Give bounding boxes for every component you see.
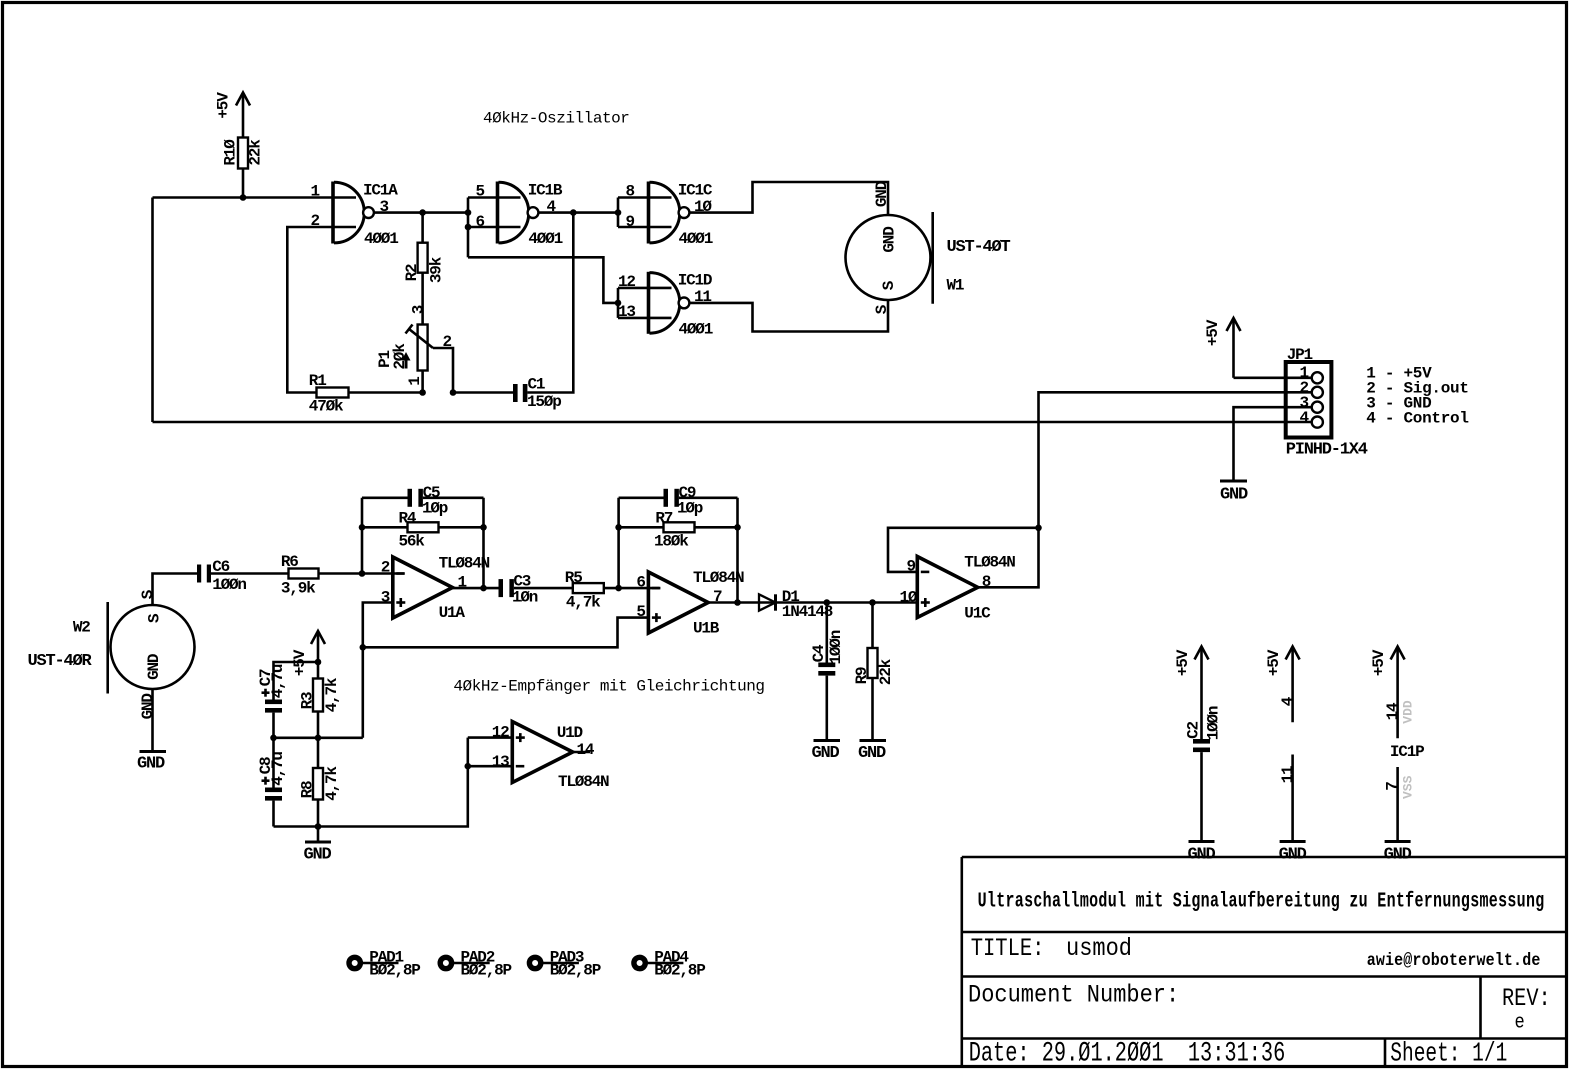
svg-text:2: 2	[381, 559, 390, 577]
svg-text:6: 6	[636, 573, 645, 591]
wire feedback right riser U1B	[736, 498, 739, 603]
svg-text:GND: GND	[1187, 846, 1215, 865]
+5V supply symbol (bias)	[311, 631, 325, 679]
svg-text:13: 13	[618, 303, 635, 321]
svg-text:1Øp: 1Øp	[422, 499, 448, 517]
svg-text:R2: R2	[403, 264, 421, 281]
wire C7 bottom	[272, 713, 275, 738]
junction at R10 / pin1 net	[240, 194, 247, 201]
wire pin12	[468, 736, 513, 739]
U1B plus glyph	[652, 613, 661, 622]
wire R7 left	[619, 526, 664, 529]
wire C6 to R6	[211, 572, 289, 575]
svg-text:1ØØn: 1ØØn	[1205, 706, 1223, 740]
+5V supply symbol (U1 power)	[1286, 647, 1300, 723]
wire C5 right	[423, 496, 484, 499]
wire left rail down to Control net	[151, 198, 154, 423]
ground symbol C2	[1189, 840, 1215, 843]
svg-text:R8: R8	[298, 781, 316, 798]
resistor R10	[238, 138, 248, 169]
U1A plus glyph	[396, 598, 405, 607]
junction IC1C bracket	[615, 209, 622, 216]
svg-text:4,7u: 4,7u	[269, 664, 287, 698]
svg-text:4,7k: 4,7k	[566, 594, 601, 612]
capacitor C2 (polarized)	[1193, 739, 1210, 752]
svg-text:4,7u: 4,7u	[269, 752, 287, 786]
wire D1 to U1C pin10	[776, 601, 918, 604]
svg-text:1N4148: 1N4148	[782, 603, 833, 621]
svg-text:1ØØn: 1ØØn	[827, 630, 845, 664]
svg-text:TLØ84N: TLØ84N	[964, 554, 1015, 572]
wire C4 top	[825, 603, 828, 663]
header JP1 box	[1286, 362, 1332, 438]
svg-text:GND: GND	[303, 846, 331, 865]
ground symbol JP1	[1220, 480, 1247, 483]
svg-text:4ØØ1: 4ØØ1	[528, 230, 562, 248]
svg-text:56k: 56k	[399, 533, 426, 551]
wire R4 right	[439, 526, 484, 529]
svg-text:9: 9	[626, 213, 635, 231]
wire C2 bottom	[1200, 752, 1203, 841]
svg-text:2: 2	[311, 212, 320, 230]
svg-text:C2: C2	[1185, 722, 1203, 739]
nor gate IC1B input bracket	[467, 198, 470, 258]
ground symbol bias	[305, 841, 331, 844]
wire feedback right riser	[482, 498, 485, 588]
wire bias rail	[274, 736, 363, 739]
svg-text:4ØØ1: 4ØØ1	[679, 230, 713, 248]
svg-text:7: 7	[1384, 782, 1402, 791]
svg-text:4ØkHz-Empfänger mit Gleichrich: 4ØkHz-Empfänger mit Gleichrichtung	[453, 678, 764, 696]
junction R8 gnd	[315, 823, 322, 830]
wire R1 to P1 node	[349, 391, 423, 394]
capacitor C5	[408, 489, 423, 507]
svg-text:TITLE:: TITLE:	[971, 934, 1045, 962]
svg-text:5: 5	[476, 183, 485, 201]
resistor R7	[664, 522, 695, 532]
svg-text:TLØ84N: TLØ84N	[693, 569, 744, 587]
junction R7 tap	[615, 585, 622, 592]
wire U1A pin3 to bias	[363, 603, 393, 738]
resistor R1	[317, 388, 349, 398]
diode D1	[759, 594, 776, 610]
junction U1D pin13	[465, 763, 472, 770]
+5V supply symbol (IC1P power)	[1391, 647, 1405, 739]
svg-text:GND: GND	[145, 654, 163, 680]
JP1 pad 4	[1312, 417, 1323, 428]
junction U1C feedback	[1035, 525, 1042, 532]
svg-text:awie@roboterwelt.de: awie@roboterwelt.de	[1367, 951, 1541, 970]
wire IC1A pin2 feedback	[287, 227, 356, 393]
ground symbol IC1P	[1385, 840, 1411, 843]
transducer W2 body	[111, 605, 195, 689]
svg-text:4,7k: 4,7k	[323, 677, 341, 712]
wire W2 S to C6	[153, 574, 198, 605]
U1D plus glyph	[516, 733, 525, 742]
svg-text:+5V: +5V	[1265, 649, 1283, 676]
junction R7 left	[615, 524, 622, 531]
svg-text:U1C: U1C	[964, 604, 991, 622]
svg-text:U1D: U1D	[557, 724, 583, 742]
svg-text:Date: 29.Ø1.2ØØ1 13:31:36: Date: 29.Ø1.2ØØ1 13:31:36	[969, 1039, 1286, 1070]
wire bias to U1B pin5	[363, 618, 649, 648]
svg-text:GND: GND	[1384, 846, 1412, 865]
P1 adjust arrow glyph	[402, 352, 411, 369]
wire R3 bottom	[317, 712, 320, 738]
wire feedback riser U1B	[617, 498, 620, 588]
junction R3/R8	[315, 735, 322, 742]
wire Control net (long horizontal to JP1 pin4)	[153, 421, 1312, 424]
svg-text:BØ2,8P: BØ2,8P	[654, 962, 705, 980]
pad PAD1	[349, 957, 399, 968]
wire C9 left	[619, 496, 664, 499]
svg-text:Document Number:: Document Number:	[968, 981, 1179, 1010]
wire IC1D output to W1 S	[690, 300, 889, 332]
svg-text:BØ2,8P: BØ2,8P	[369, 962, 420, 980]
svg-text:R1Ø: R1Ø	[222, 139, 240, 166]
svg-text:GND: GND	[139, 694, 157, 720]
junction C7 tap	[315, 659, 322, 666]
wire W2 GND down	[151, 689, 154, 751]
pad PAD3	[529, 957, 579, 968]
svg-text:R3: R3	[298, 692, 316, 709]
junction output/feedback	[480, 585, 487, 592]
svg-text:GND: GND	[873, 181, 891, 207]
wire C8 bottom	[272, 801, 275, 827]
junction IC1D bracket	[615, 300, 622, 307]
svg-text:1: 1	[311, 183, 320, 201]
wire R2 top	[421, 213, 424, 243]
svg-text:IC1P: IC1P	[1390, 743, 1424, 761]
wire R7 right	[695, 526, 738, 529]
wire pin13	[618, 317, 672, 320]
svg-text:BØ2,8P: BØ2,8P	[550, 962, 601, 980]
wire pin5	[468, 196, 521, 199]
wire feedback riser	[361, 498, 364, 574]
title block outline	[962, 857, 1565, 1066]
capacitor C6	[197, 565, 211, 583]
wire R9 top	[871, 603, 874, 649]
svg-text:1Ø: 1Ø	[900, 588, 918, 606]
wire U1 pin11 to gnd	[1291, 755, 1294, 842]
wire R2 to P1	[421, 273, 424, 325]
svg-text:R6: R6	[281, 553, 298, 571]
U1A minus glyph	[396, 572, 405, 575]
+5V supply symbol (R10)	[236, 93, 250, 138]
svg-text:C1: C1	[528, 376, 545, 394]
wire JP1 pin3 GND stub	[1234, 407, 1312, 481]
nor gate IC1D	[649, 272, 690, 334]
nor gate IC1A	[333, 182, 374, 244]
op-amp U1C	[917, 557, 977, 618]
junction R2 tap	[419, 209, 426, 216]
wire P1 wiper to bottom net	[433, 348, 453, 393]
+5V supply symbol (JP1)	[1227, 318, 1241, 378]
W2 side bar	[106, 602, 109, 694]
junction bracket main	[465, 209, 472, 216]
svg-text:3,9k: 3,9k	[281, 579, 316, 597]
svg-text:UST-4ØT: UST-4ØT	[947, 238, 1011, 257]
junction P1 pin1	[419, 389, 426, 396]
JP1 pad 3	[1312, 402, 1323, 413]
wire C3 to R5	[514, 587, 573, 590]
pad PAD2	[440, 957, 490, 968]
JP1 pad 2	[1312, 387, 1323, 398]
svg-text:4ØkHz-Oszillator: 4ØkHz-Oszillator	[483, 110, 629, 128]
wire U1A output	[453, 587, 499, 590]
+5V supply symbol (C2 rail)	[1195, 647, 1209, 740]
junction bias tap	[360, 644, 367, 651]
wire gnd stub	[317, 827, 320, 843]
JP1 pad 1	[1312, 372, 1323, 383]
nor gate IC1B	[498, 182, 539, 244]
wire pin8	[618, 196, 672, 199]
ground symbol C4	[814, 739, 841, 742]
wire IC1B output	[539, 211, 619, 214]
svg-text:4 - Control: 4 - Control	[1366, 409, 1468, 427]
U1C plus glyph	[921, 598, 930, 607]
svg-text:UST-4ØR: UST-4ØR	[28, 652, 93, 671]
svg-text:+5V: +5V	[1370, 649, 1388, 676]
svg-text:Ultraschallmodul mit Signalauf: Ultraschallmodul mit Signalaufbereitung …	[978, 890, 1545, 913]
svg-text:IC1B: IC1B	[528, 181, 563, 199]
svg-text:11: 11	[1279, 766, 1297, 783]
svg-text:39k: 39k	[428, 256, 446, 283]
C8 plus sign	[262, 777, 270, 785]
resistor R6	[289, 569, 319, 579]
junction bracket pin6	[465, 224, 472, 231]
svg-text:GND: GND	[811, 744, 839, 763]
svg-text:IC1A: IC1A	[363, 181, 398, 199]
op-amp U1B	[648, 572, 708, 633]
svg-text:VSS: VSS	[1401, 775, 1416, 799]
wire C7 top	[274, 662, 319, 700]
wire IC1A output	[374, 211, 468, 214]
ground symbol W2	[140, 750, 167, 753]
wire U1B output	[708, 601, 759, 604]
svg-text:12: 12	[618, 273, 635, 291]
resistor R3	[313, 679, 323, 712]
junction R4 left	[359, 524, 366, 531]
svg-text:1: 1	[406, 377, 424, 386]
svg-text:BØ2,8P: BØ2,8P	[461, 962, 512, 980]
capacitor C8 (polarized)	[265, 788, 282, 801]
junction P1 wiper tap	[450, 389, 457, 396]
wire P1 bottom	[421, 371, 424, 393]
wire node to C1	[453, 391, 513, 394]
svg-text:8: 8	[626, 183, 635, 201]
wire pin9	[618, 226, 672, 229]
wire C4 bottom	[825, 676, 828, 741]
svg-text:14: 14	[577, 741, 595, 759]
wire R9 bottom	[871, 678, 874, 741]
svg-text:IC1D: IC1D	[678, 272, 712, 290]
wire IC1P pin7 to gnd	[1396, 767, 1399, 842]
W1 side bar	[931, 212, 934, 304]
svg-text:47Øk: 47Øk	[309, 398, 344, 416]
svg-text:Sheet: 1/1: Sheet: 1/1	[1390, 1039, 1507, 1069]
op-amp U1D	[512, 722, 572, 783]
capacitor C7 (polarized)	[265, 700, 282, 713]
resistor R8	[313, 768, 323, 800]
svg-text:15Øp: 15Øp	[527, 393, 561, 411]
svg-text:IC1C: IC1C	[678, 181, 713, 199]
svg-text:13: 13	[492, 753, 509, 771]
capacitor C9	[664, 489, 679, 507]
svg-text:R4: R4	[399, 509, 417, 527]
svg-text:1Øn: 1Øn	[512, 589, 538, 607]
svg-text:REV:: REV:	[1502, 984, 1551, 1013]
svg-text:12: 12	[492, 723, 509, 741]
svg-text:4ØØ1: 4ØØ1	[679, 320, 713, 338]
junction R7 right	[734, 524, 741, 531]
svg-text:6: 6	[476, 213, 485, 231]
resistor R9	[868, 648, 878, 678]
svg-text:e: e	[1515, 1010, 1525, 1034]
potentiometer P1	[418, 325, 428, 371]
svg-text:R1: R1	[309, 372, 326, 390]
svg-text:3: 3	[410, 305, 428, 314]
svg-text:U1A: U1A	[439, 604, 466, 622]
wire C8 top	[272, 738, 275, 788]
ground symbol R9	[860, 739, 887, 742]
capacitor C3	[499, 579, 514, 597]
C7 plus sign	[262, 689, 270, 697]
wire JP1 pin1	[1234, 376, 1312, 379]
capacitor C1	[513, 384, 527, 402]
wire IC1A pin1 from left rail	[153, 196, 357, 199]
svg-text:U1B: U1B	[693, 620, 720, 638]
svg-text:+5V: +5V	[1174, 649, 1192, 676]
svg-text:GND: GND	[137, 755, 165, 774]
transducer W1 body	[846, 215, 931, 300]
wire R10 to net	[242, 169, 245, 198]
junction U1B feedback	[734, 599, 741, 606]
svg-text:2Øk: 2Øk	[391, 343, 409, 370]
svg-text:JP1: JP1	[1287, 346, 1313, 364]
svg-text:R7: R7	[655, 509, 672, 527]
P1 wiper arrow	[406, 325, 434, 349]
junction R9 tap	[869, 599, 876, 606]
wire R8 top	[317, 738, 320, 768]
svg-text:1Øp: 1Øp	[677, 499, 703, 517]
wire IC1C output to W1 GND	[690, 182, 889, 215]
svg-text:4ØØ1: 4ØØ1	[364, 230, 398, 248]
svg-text:1ØØn: 1ØØn	[212, 576, 246, 594]
svg-text:R9: R9	[853, 667, 871, 684]
wire R8 bottom	[317, 800, 320, 827]
svg-text:4,7k: 4,7k	[323, 766, 341, 801]
junction C7/C8	[270, 735, 277, 742]
wire pin12	[618, 287, 672, 290]
svg-text:usmod: usmod	[1066, 936, 1132, 963]
wire JP1 pin2 Sig.out from U1C	[1039, 392, 1312, 528]
resistor R2	[418, 243, 428, 273]
svg-text:+5V: +5V	[215, 92, 233, 119]
svg-text:22k: 22k	[247, 139, 265, 166]
U1D input bracket	[466, 738, 469, 767]
ground symbol U1 power	[1280, 840, 1306, 843]
U1B minus glyph	[652, 587, 661, 590]
svg-text:22k: 22k	[877, 658, 895, 685]
wire R5 to U1B pin6	[604, 587, 660, 590]
resistor R4	[408, 522, 439, 532]
junction C1 riser	[570, 209, 577, 216]
nor gate IC1C input bracket	[617, 198, 620, 228]
nor gate IC1C	[649, 182, 690, 244]
nor gate IC1D input bracket	[617, 288, 620, 318]
U1C minus glyph	[921, 571, 930, 574]
svg-text:5: 5	[636, 603, 645, 621]
svg-text:GND: GND	[881, 227, 899, 253]
svg-text:GND: GND	[1220, 485, 1248, 504]
svg-text:R5: R5	[565, 569, 582, 587]
wire C9 right	[679, 496, 738, 499]
svg-text:VDD: VDD	[1401, 700, 1416, 724]
wire U1C pin9 feedback	[888, 528, 1039, 572]
svg-text:W1: W1	[947, 277, 964, 295]
U1D minus glyph	[516, 765, 525, 768]
wire R4 left	[362, 526, 408, 529]
svg-text:TLØ84N: TLØ84N	[558, 773, 609, 791]
wire R6 to U1A pin2	[319, 572, 405, 575]
svg-text:+5V: +5V	[1204, 319, 1222, 346]
svg-text:C4: C4	[810, 644, 828, 662]
wire ground rail to U1D	[274, 766, 468, 826]
junction R4 right	[480, 524, 487, 531]
wire pin6	[468, 226, 521, 229]
wire U1D output stub	[573, 751, 590, 754]
op-amp U1A	[393, 557, 453, 618]
wire pin13	[468, 765, 513, 768]
junction feedback tap	[359, 570, 366, 577]
wire C5 left	[362, 496, 408, 499]
svg-text:GND: GND	[1279, 846, 1307, 865]
wire C1 to IC1B output net	[527, 213, 573, 393]
wire U1C output	[978, 528, 1039, 588]
svg-text:14: 14	[1384, 702, 1402, 720]
svg-text:PINHD-1X4: PINHD-1X4	[1286, 441, 1368, 460]
svg-text:TLØ84N: TLØ84N	[439, 554, 490, 572]
resistor R5	[573, 583, 604, 593]
capacitor C4 (polarized)	[818, 663, 835, 676]
junction C4 tap	[824, 599, 831, 606]
svg-text:18Øk: 18Øk	[654, 533, 689, 551]
svg-text:GND: GND	[858, 744, 886, 763]
svg-text:W2: W2	[73, 618, 90, 636]
pad PAD4	[634, 957, 684, 968]
wire feedback to IC1D inputs	[468, 257, 618, 303]
